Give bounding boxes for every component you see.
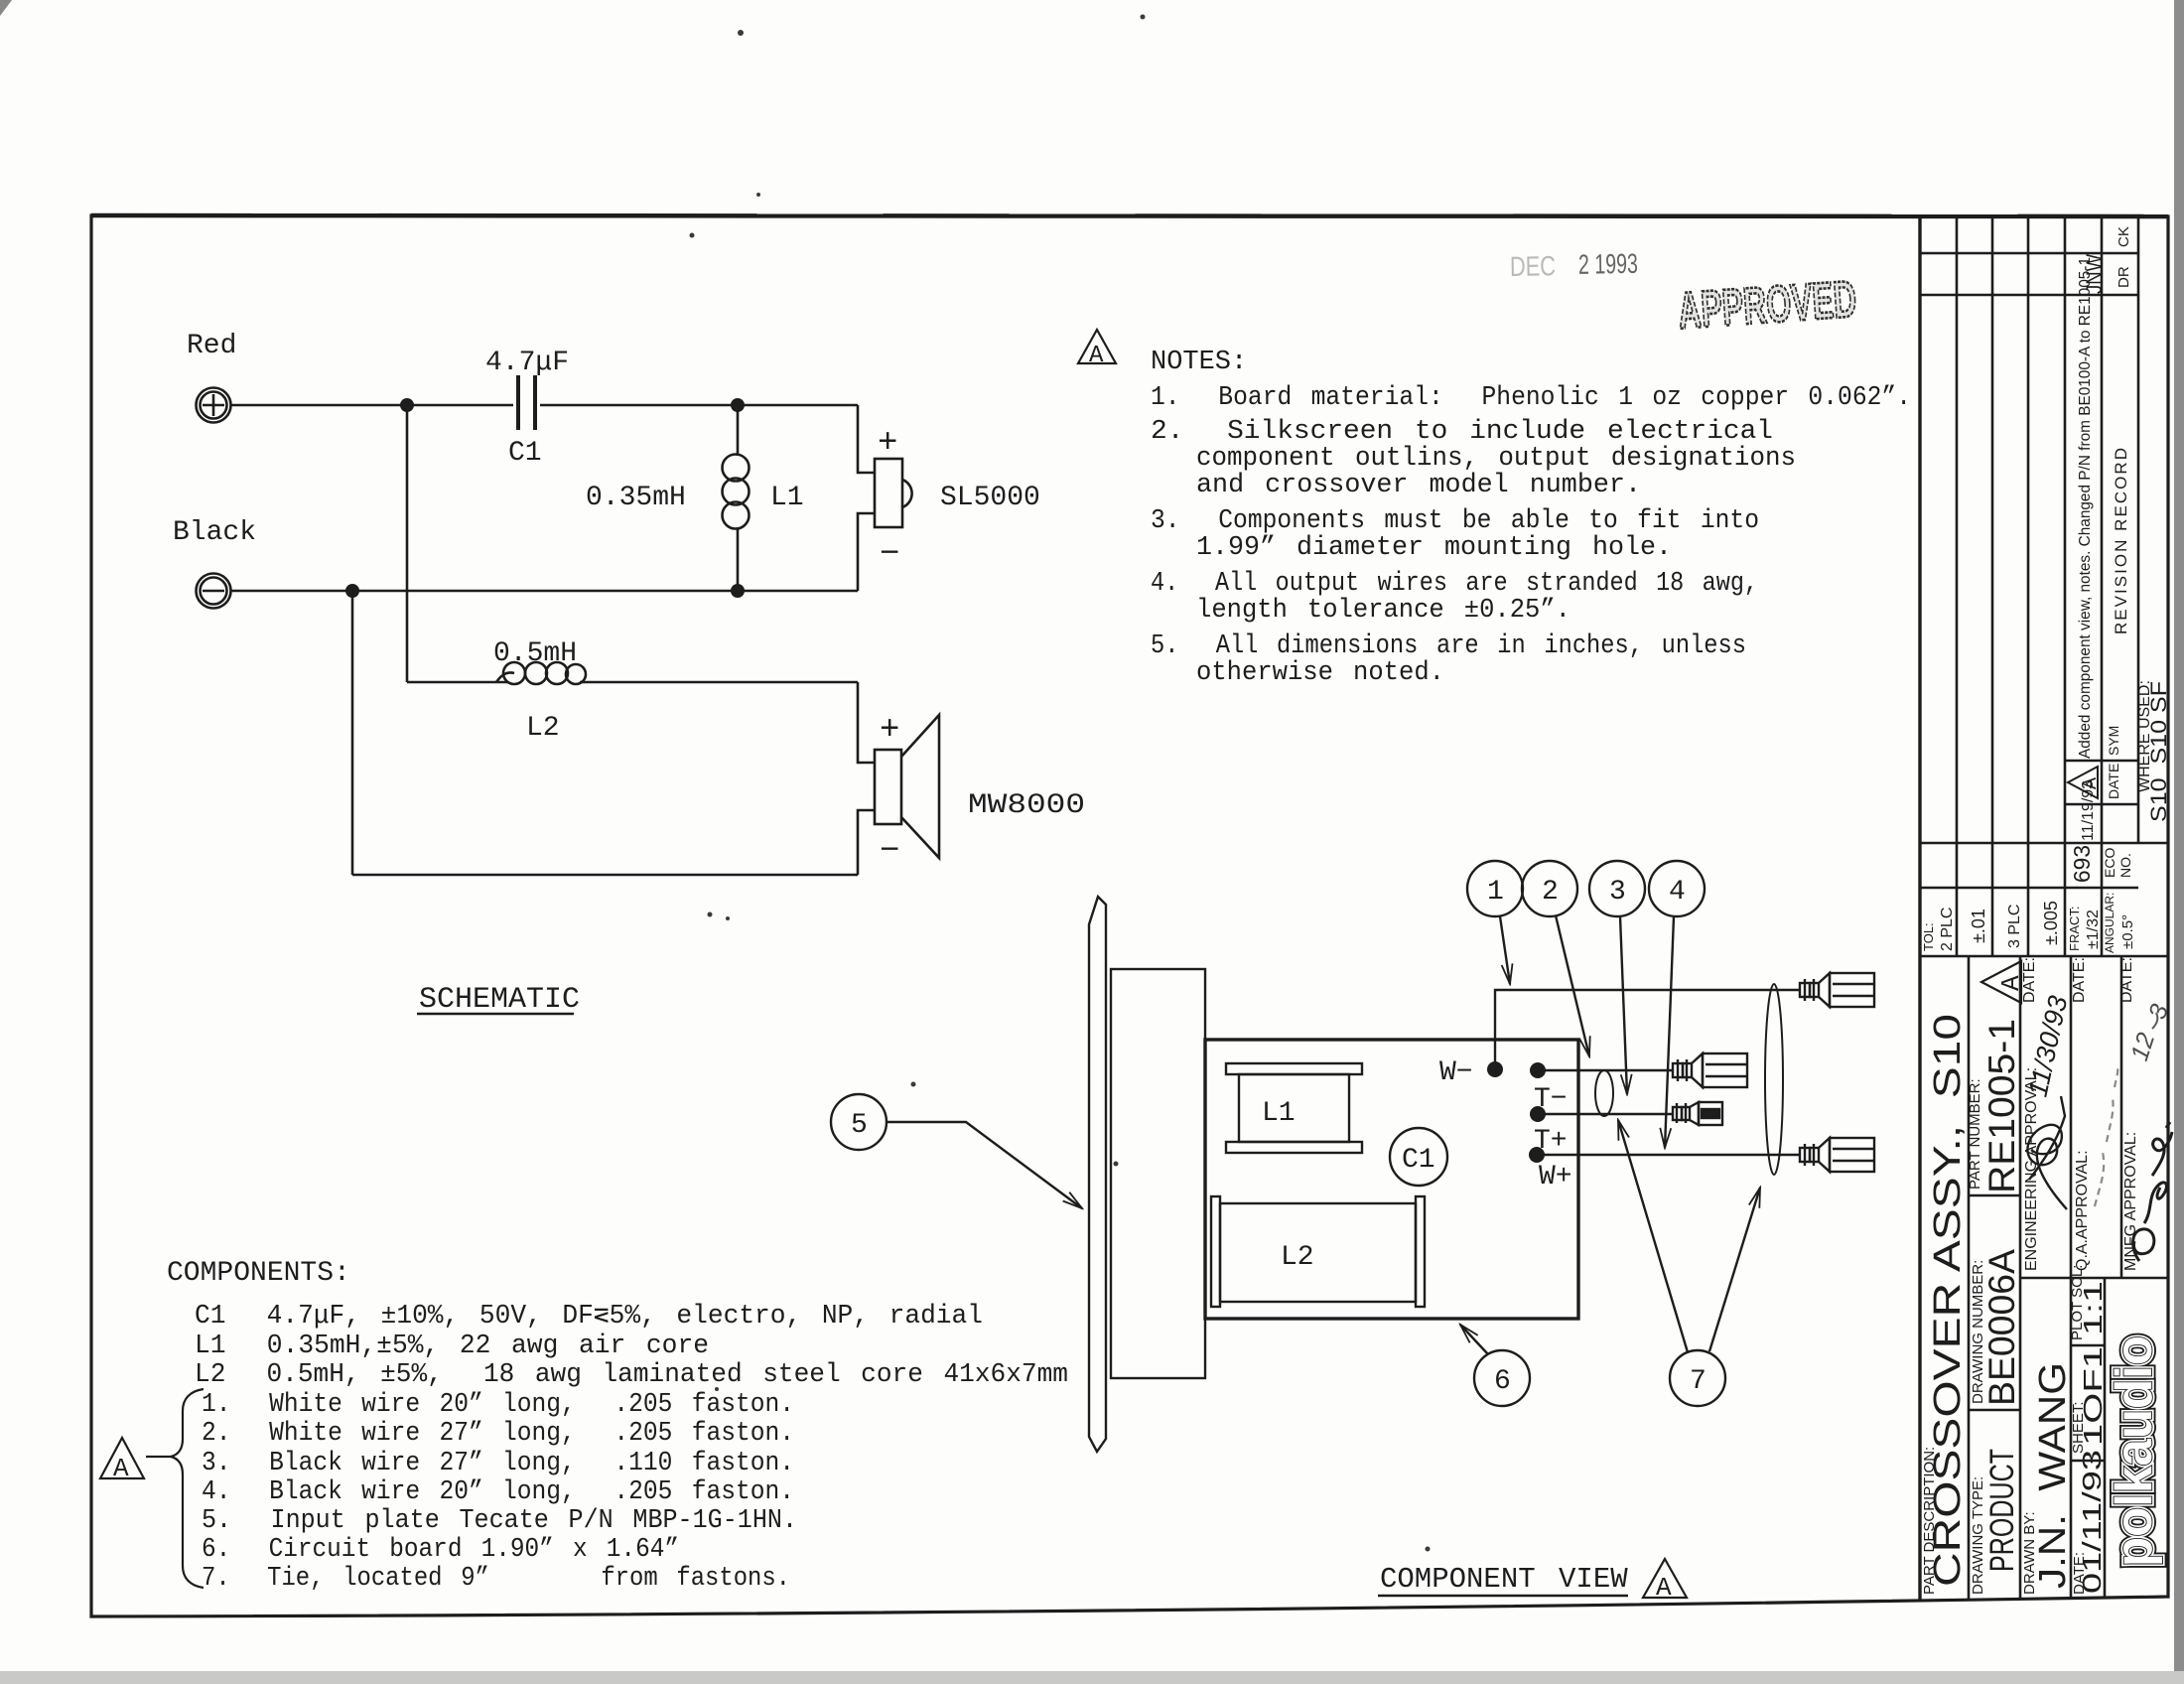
title block left edge <box>1918 216 1921 1601</box>
junction node: top rail / L2 branch <box>400 398 414 412</box>
svg-text:A: A <box>113 1454 129 1483</box>
wire: MW8000 + lead down <box>858 682 875 763</box>
svg-text:7: 7 <box>1690 1366 1706 1397</box>
balloon 1 <box>1467 861 1523 984</box>
inductor L2 coil <box>496 662 586 684</box>
svg-text:component outlins, output desi: component outlins, output designations <box>1196 444 1796 474</box>
svg-text:1. Board material: Phenolic: 1. Board material: Phenolic 1 oz copper … <box>1151 383 1911 413</box>
svg-text:T−: T− <box>1534 1084 1568 1115</box>
balloon 7 <box>1618 1120 1760 1406</box>
svg-text:MW8000: MW8000 <box>968 790 1085 821</box>
wire: L2 row coil to MW8000 branch <box>580 681 858 684</box>
tolerance block bottom full width <box>1920 955 2168 958</box>
woofer MW8000 symbol <box>875 715 939 858</box>
frame top edge thick <box>91 215 2168 216</box>
pad T- <box>1530 1062 1546 1078</box>
svg-text:2. Silkscreen to include elec: 2. Silkscreen to include electrical <box>1151 417 1773 447</box>
capacitor C1 footprint <box>1390 1128 1447 1186</box>
wire W+ to faston 4 <box>1537 1154 1800 1156</box>
svg-text:0.35mH: 0.35mH <box>586 483 686 513</box>
scan gray band bottom edge <box>0 1671 2184 1684</box>
faston connector on wire 4 <box>1800 1138 1874 1172</box>
svg-text:±0.5°: ±0.5° <box>2119 914 2136 949</box>
wire: black rail from - terminal <box>230 590 858 593</box>
svg-text:COMPONENTS:: COMPONENTS: <box>167 1258 350 1289</box>
inductor L2 footprint <box>1211 1196 1425 1307</box>
wire: top rail capacitor to SL5000 branch <box>540 404 858 407</box>
svg-text:ANGULAR:: ANGULAR: <box>2103 893 2116 953</box>
date received stamp DEC 2 1993 <box>1510 248 1639 282</box>
inductor L1 vertical with coil <box>723 405 750 591</box>
svg-text:C1: C1 <box>1402 1145 1435 1176</box>
junction node: black rail / L1 bottom <box>731 584 745 598</box>
svg-text:C1: C1 <box>508 438 542 469</box>
svg-text:1OF1: 1OF1 <box>2078 1346 2108 1446</box>
faston connector on wire 1 <box>1800 973 1874 1007</box>
svg-text:FRACT:: FRACT: <box>2067 907 2082 952</box>
DR/CK row dividers <box>1920 252 2138 255</box>
triangle A by component view title <box>1643 1559 1687 1603</box>
svg-text:3 PLC: 3 PLC <box>2006 905 2023 948</box>
svg-text:CROSSOVER ASSY., S10: CROSSOVER ASSY., S10 <box>1927 1014 1969 1587</box>
pad T+ <box>1530 1106 1546 1122</box>
svg-text:Added component view, notes. C: Added component view, notes. Changed P/N… <box>2077 257 2094 759</box>
svg-text:SL5000: SL5000 <box>940 483 1040 513</box>
rotated title block text <box>1921 226 2174 1595</box>
svg-text:TOL:: TOL: <box>1921 922 1936 951</box>
svg-text:5. Input plate Tecate P/N MBP: 5. Input plate Tecate P/N MBP-1G-1HN. <box>202 1506 797 1536</box>
svg-text:3. Black wire 27” long, .110: 3. Black wire 27” long, .110 faston. <box>202 1449 794 1478</box>
svg-text:5. All dimensions are in inch: 5. All dimensions are in inches, unless <box>1151 631 1746 661</box>
MNFG signature D M Z <box>2133 1122 2172 1261</box>
wire: bottom return rail <box>352 874 858 877</box>
APPROVED stamp distressed <box>1676 270 1858 340</box>
input plate body <box>1111 969 1205 1378</box>
svg-text:L1: L1 <box>1262 1098 1296 1129</box>
junction node: top rail / L1 top <box>731 398 745 412</box>
svg-text:1: 1 <box>1487 877 1504 908</box>
svg-text:−: − <box>880 536 899 574</box>
QA faint signature <box>2095 1067 2117 1206</box>
svg-text:L2: L2 <box>526 713 560 744</box>
svg-text:J.N. WANG: J.N. WANG <box>2032 1362 2074 1589</box>
svg-text:6. Circuit board 1.90” x 1.64: 6. Circuit board 1.90” x 1.64” <box>202 1535 679 1565</box>
svg-text:1.99” diameter mounting hole.: 1.99” diameter mounting hole. <box>1196 533 1672 563</box>
scan corner mark top-left <box>0 0 12 16</box>
svg-text:BE0006A: BE0006A <box>1981 1249 2022 1406</box>
svg-text:2 PLC: 2 PLC <box>1939 908 1956 951</box>
svg-text:7. Tie, located 9” from: 7. Tie, located 9” from fastons. <box>202 1564 790 1594</box>
ECO row top full width <box>1920 842 2168 845</box>
scan speck dots <box>690 15 1431 1552</box>
svg-text:DATE:: DATE: <box>2118 957 2135 1003</box>
components triangle A with brace <box>100 1389 204 1588</box>
svg-text:JNW: JNW <box>2082 254 2107 294</box>
SYM column dividers <box>2065 760 2138 763</box>
svg-text:5: 5 <box>851 1110 868 1141</box>
svg-text:4.7μF: 4.7μF <box>485 348 569 378</box>
terminal + (Red input) <box>197 388 231 423</box>
svg-text:C1 4.7μF, ±10%, 50V, DF⋜5%, e: C1 4.7μF, ±10%, 50V, DF⋜5%, electro, NP,… <box>195 1302 983 1332</box>
input plate edge bar (item 5) <box>1089 897 1106 1452</box>
wire: top rail from + terminal to capacitor <box>230 404 513 407</box>
svg-text:±1/32: ±1/32 <box>2085 910 2102 949</box>
cable tie small (item 7) <box>1595 1070 1613 1116</box>
wire: SL5000 branch down right side <box>858 405 875 473</box>
svg-text:L2: L2 <box>1281 1242 1314 1273</box>
svg-text:+: + <box>878 425 897 463</box>
svg-text:4: 4 <box>1669 877 1686 908</box>
faston connector on wire 2 <box>1673 1053 1747 1087</box>
sheet / date divider <box>2071 1460 2105 1463</box>
polkaudio logo <box>2106 1335 2163 1567</box>
svg-text:otherwise noted.: otherwise noted. <box>1196 658 1444 688</box>
svg-text:DEC: DEC <box>1510 250 1557 282</box>
svg-text:A: A <box>2080 777 2103 789</box>
svg-text:01/11/93: 01/11/93 <box>2077 1450 2107 1594</box>
balloon 5 <box>831 1094 1082 1208</box>
pad W- <box>1487 1061 1503 1077</box>
wire T+ to faston 3 <box>1538 1113 1673 1115</box>
svg-text:2. White wire 27” long, .205: 2. White wire 27” long, .205 faston. <box>202 1419 794 1449</box>
plot scl / sheet divider <box>2071 1344 2105 1347</box>
svg-text:DATE:: DATE: <box>2021 957 2038 1003</box>
svg-text:ECO: ECO <box>2102 848 2117 878</box>
svg-text:3. Components must be able to: 3. Components must be able to fit into <box>1151 506 1759 536</box>
terminal - (Black input) <box>197 574 231 609</box>
wire: MW8000 - lead up <box>858 810 875 875</box>
svg-text:RE1005-1: RE1005-1 <box>1981 1019 2022 1193</box>
SYM triangle A <box>2068 767 2103 798</box>
notes text <box>1151 348 1911 688</box>
drawing number / part number divider <box>1969 1194 2020 1197</box>
balloon 6 <box>1460 1325 1530 1406</box>
info row lines <box>1968 956 1971 1600</box>
approvals bottom divider <box>2020 1277 2168 1280</box>
svg-text:PRODUCT: PRODUCT <box>1983 1449 2021 1572</box>
svg-text:L1 0.35mH,±5%, 22 awg air cor: L1 0.35mH,±5%, 22 awg air core <box>195 1332 709 1361</box>
svg-text:NO.: NO. <box>2117 853 2133 878</box>
svg-text:2 1993: 2 1993 <box>1578 248 1639 280</box>
balloon 3 <box>1589 861 1645 1094</box>
svg-text:L1: L1 <box>770 483 804 513</box>
svg-text:A: A <box>1089 343 1104 369</box>
svg-text:1:1: 1:1 <box>2078 1281 2108 1335</box>
svg-text:and crossover model number.: and crossover model number. <box>1196 471 1641 500</box>
wire T- to faston 2 <box>1538 1069 1673 1071</box>
small .110 faston on wire 3 <box>1673 1102 1722 1125</box>
pad W+ <box>1529 1147 1545 1163</box>
junction node: black rail / return branch <box>345 584 359 598</box>
svg-text:S10 S10 SF: S10 S10 SF <box>2146 681 2171 822</box>
drawing type / drawing number divider <box>1969 1409 2020 1412</box>
circuit board (item 6) <box>1205 1040 1578 1319</box>
wire W- to faston 1 <box>1495 990 1800 1069</box>
svg-text:4. Black wire 20” long, .205: 4. Black wire 20” long, .205 faston. <box>202 1477 794 1507</box>
svg-text:A: A <box>1656 1573 1672 1603</box>
svg-text:DATE: DATE <box>2106 764 2121 799</box>
svg-text:0.5mH: 0.5mH <box>493 638 577 669</box>
svg-text:4. All output wires are stran: 4. All output wires are stranded 18 awg, <box>1151 569 1758 599</box>
svg-text:SYM: SYM <box>2106 726 2121 756</box>
svg-text:DR: DR <box>2116 266 2132 288</box>
drawing frame border <box>91 215 2168 1616</box>
svg-text:COMPONENT VIEW: COMPONENT VIEW <box>1380 1563 1628 1596</box>
svg-text:1. White wire 20” long, .205: 1. White wire 20” long, .205 faston. <box>202 1390 794 1420</box>
svg-text:CK: CK <box>2116 226 2132 247</box>
svg-text:Red: Red <box>187 331 236 361</box>
wire: L2 row horizontal to coil <box>407 681 508 684</box>
scan gray band right edge <box>2174 0 2184 1684</box>
engineering signature <box>2027 1096 2067 1209</box>
svg-text:polkaudio: polkaudio <box>2106 1335 2163 1567</box>
svg-text:3: 3 <box>1609 877 1626 908</box>
wire: branch down from black rail to bottom return <box>351 591 354 875</box>
svg-text:length tolerance ±0.25”.: length tolerance ±0.25”. <box>1196 596 1570 626</box>
svg-text:L2 0.5mH, ±5%, 18 awg lamina: L2 0.5mH, ±5%, 18 awg laminated steel co… <box>195 1360 1068 1390</box>
svg-text:6: 6 <box>1494 1366 1511 1397</box>
inductor L1 footprint <box>1226 1063 1362 1153</box>
cable tie large (item 7) <box>1765 984 1783 1175</box>
svg-text:Black: Black <box>173 517 256 548</box>
svg-text:W−: W− <box>1439 1057 1473 1088</box>
svg-text:2: 2 <box>1542 877 1559 908</box>
svg-text:W+: W+ <box>1539 1162 1572 1193</box>
svg-text:693: 693 <box>2069 845 2095 883</box>
svg-text:DATE:: DATE: <box>2071 957 2088 1003</box>
tweeter SL5000 symbol <box>875 459 912 527</box>
svg-text:Q.A.APPROVAL:: Q.A.APPROVAL: <box>2074 1150 2091 1271</box>
svg-text:SCHEMATIC: SCHEMATIC <box>419 983 580 1017</box>
svg-text:±.01: ±.01 <box>1969 909 1988 943</box>
balloon 4 <box>1649 861 1705 1148</box>
svg-text:−: − <box>880 833 899 871</box>
revision triangle A near notes <box>1078 330 1116 369</box>
wire: branch down from top rail to L2 row <box>406 405 409 682</box>
capacitor C1 <box>518 375 535 430</box>
svg-text:T+: T+ <box>1534 1126 1568 1157</box>
svg-text:±.005: ±.005 <box>2041 901 2061 945</box>
revision triangle A by part number <box>1981 961 2026 1003</box>
balloon 2 <box>1522 861 1589 1056</box>
svg-text:NOTES:: NOTES: <box>1151 348 1247 377</box>
svg-text:+: + <box>880 712 899 750</box>
revision row lines <box>1956 216 1959 956</box>
